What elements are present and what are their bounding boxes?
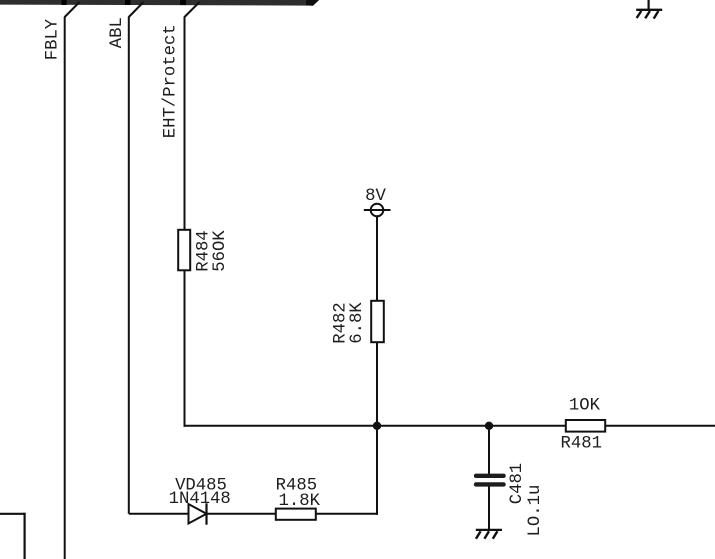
junction node at C481 branch	[485, 422, 493, 430]
ground below C481	[476, 530, 502, 539]
diode VD485 value label	[169, 490, 231, 509]
wire FBLY bus entry diagonal	[65, 2, 80, 17]
resistor R484 ref label	[195, 230, 214, 271]
wire riser to junction	[376, 426, 378, 515]
ground top right	[636, 0, 662, 19]
capacitor C481 plate top	[474, 474, 506, 478]
svg-text:1.8K: 1.8K	[279, 492, 321, 511]
resistor R485 value label	[279, 492, 321, 511]
wire rail to C481	[488, 426, 490, 475]
node FBLY label	[44, 18, 63, 60]
svg-text:C481: C481	[508, 463, 527, 504]
resistor R482 ref label	[332, 302, 351, 343]
svg-text:6.8K: 6.8K	[348, 302, 367, 344]
wire EHT/Protect bus entry diagonal	[185, 2, 200, 17]
resistor R484 value label	[211, 230, 230, 272]
node ABL label	[108, 17, 127, 48]
svg-text:ABL: ABL	[108, 17, 127, 48]
svg-text:R481: R481	[561, 435, 602, 454]
diode VD485	[189, 503, 207, 524]
capacitor C481 plate bottom	[474, 482, 506, 486]
wire FBLY vertical	[64, 17, 66, 559]
power 8V label	[365, 187, 386, 206]
wire ABL vertical	[128, 17, 130, 514]
wire 8V to R482	[376, 216, 378, 302]
resistor R481 value label 10K	[569, 397, 601, 416]
svg-text:EHT/Protect: EHT/Protect	[162, 24, 181, 138]
wire R485 to riser	[316, 513, 378, 515]
wire EHT/Protect vertical upper	[184, 17, 186, 232]
capacitor C481 ref label	[508, 463, 527, 504]
resistor R485	[276, 509, 316, 520]
wire main rail horizontal	[184, 425, 567, 427]
wire ABL corner to diode	[129, 513, 189, 515]
resistor R482	[371, 301, 384, 342]
svg-text:56OK: 56OK	[211, 230, 230, 272]
diode VD485 ref label	[175, 476, 227, 495]
pin ABL	[125, 0, 131, 5]
wire C481 to ground	[488, 486, 490, 530]
svg-text:1OK: 1OK	[569, 397, 601, 416]
svg-text:LO.1u: LO.1u	[526, 485, 545, 537]
node EHT/Protect label	[162, 24, 181, 138]
resistor R482 value label	[348, 302, 367, 344]
capacitor C481 value label	[526, 485, 545, 537]
block corner bottom-left	[0, 513, 25, 559]
svg-text:1N4148: 1N4148	[169, 490, 231, 509]
resistor R481 ref label	[561, 435, 602, 454]
junction node at R482/EHT rail	[373, 422, 381, 430]
wire ABL bus entry diagonal	[129, 2, 144, 17]
wire EHT/Protect vertical lower	[184, 270, 186, 427]
block edge bar (top)	[0, 0, 319, 6]
power 8V terminal circle	[364, 204, 391, 217]
svg-text:FBLY: FBLY	[44, 18, 63, 60]
wire diode to R485	[207, 513, 277, 515]
pin EHT/Protect	[180, 0, 186, 5]
wire R481 to right edge	[605, 425, 715, 427]
resistor R485 ref label	[276, 476, 317, 495]
resistor R484	[178, 230, 190, 270]
wire R482 to rail	[376, 342, 378, 427]
resistor R481	[566, 420, 605, 432]
pin FBLY	[62, 0, 67, 5]
